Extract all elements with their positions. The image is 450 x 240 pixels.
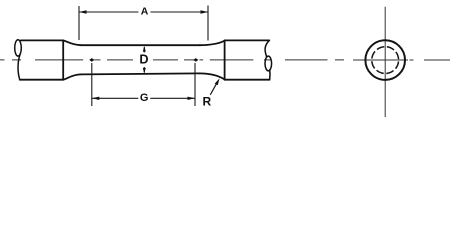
- break symbol right (sweep + loop): [265, 40, 272, 79]
- grip bottom line left: [20, 79, 63, 81]
- dimension G extension line right: [194, 63, 196, 106]
- svg-text:D: D: [139, 52, 148, 66]
- grip top line right: [225, 39, 270, 41]
- dimension A line: [79, 11, 208, 13]
- wire: vertical centerline of end view: [384, 7, 386, 117]
- fillet top-left: [63, 40, 81, 45]
- dimension A arrow right: [201, 10, 209, 13]
- fillet top-right: [200, 41, 225, 46]
- dimension D arrow down: [143, 67, 145, 73]
- specimen outline: [20, 40, 270, 79]
- node: gauge point left (dot): [89, 58, 94, 62]
- end view inner dashed circle: [372, 47, 399, 74]
- gauge top line: [81, 44, 200, 46]
- wire: horizontal centerline through specimen (dash-dot): [0, 59, 344, 61]
- dimension G arrow right: [188, 97, 196, 100]
- shoulder face left: [62, 40, 64, 79]
- leader arrow for R: [210, 84, 216, 95]
- svg-text:G: G: [140, 92, 149, 104]
- svg-text:A: A: [141, 6, 149, 18]
- dimension A arrow left: [79, 10, 87, 13]
- fillet bottom-left: [63, 74, 81, 79]
- dimension G extension line left: [91, 63, 93, 106]
- shoulder face right: [224, 40, 226, 79]
- grip bottom line right: [225, 79, 270, 81]
- gauge bottom line: [81, 73, 200, 74]
- grip top line left: [21, 39, 63, 41]
- fillet bottom-right: [200, 73, 225, 79]
- svg-text:R: R: [202, 94, 211, 108]
- dimension G line: [92, 97, 195, 99]
- node: gauge point right (dot): [193, 58, 198, 62]
- dimension A extension line right: [207, 6, 209, 41]
- dimension G arrow left: [92, 97, 100, 100]
- break symbol left (loop + sweep): [15, 40, 22, 80]
- wire: horizontal centerline through end view (dash-dot): [353, 59, 450, 61]
- dimension D arrow up: [143, 47, 145, 53]
- end view outer circle: [365, 40, 405, 80]
- dimension A extension line left: [78, 6, 80, 40]
